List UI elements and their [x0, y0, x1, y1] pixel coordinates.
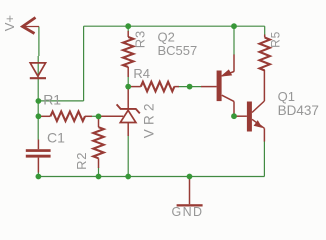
svg-text:R5: R5 [268, 31, 282, 48]
svg-text:R4: R4 [133, 66, 150, 81]
svg-text:VR2: VR2 [141, 99, 156, 138]
svg-text:BD437: BD437 [278, 103, 319, 118]
svg-text:GND: GND [172, 205, 204, 219]
svg-text:R3: R3 [133, 30, 148, 48]
svg-text:R1: R1 [43, 92, 61, 108]
svg-text:C1: C1 [47, 130, 65, 146]
svg-text:V+: V+ [2, 15, 17, 31]
svg-text:Q1: Q1 [278, 89, 295, 104]
svg-text:R2: R2 [74, 152, 89, 170]
svg-text:BC557: BC557 [158, 43, 198, 58]
